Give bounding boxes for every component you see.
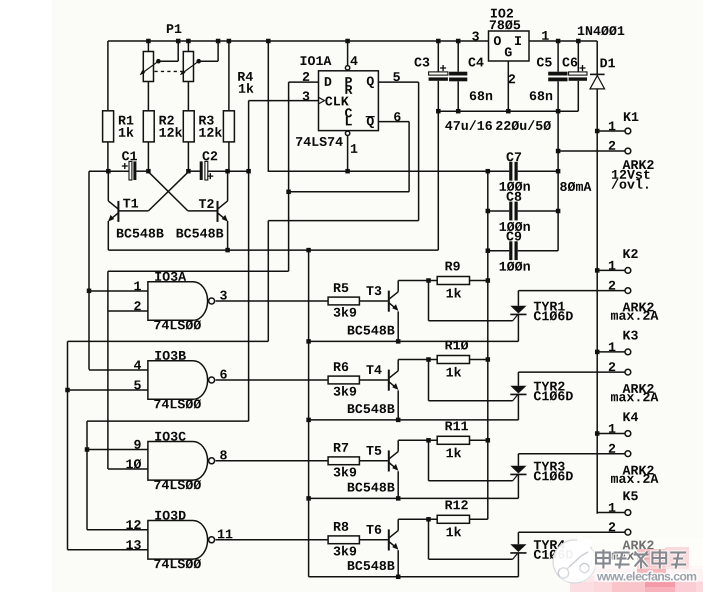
wire CLK net up bbox=[248, 101, 250, 172]
capacitor C9 bbox=[507, 232, 522, 241]
junction rail C5 bbox=[556, 39, 561, 44]
wire D feedback up bbox=[288, 82, 290, 192]
junction collector gate-drive bbox=[426, 517, 431, 522]
junction supply K3 pin1 bbox=[595, 350, 600, 355]
wire C1 to R2 bbox=[136, 170, 148, 172]
pin 4 preset bbox=[345, 39, 350, 44]
junction spine rail row2 bbox=[306, 418, 311, 423]
wire R3 bottom bbox=[187, 142, 189, 171]
wiper P1b bbox=[196, 59, 201, 64]
resistor R1Ø bbox=[437, 356, 469, 364]
junction C8 right bbox=[556, 209, 561, 214]
transistor T5 BC548B bbox=[366, 446, 381, 455]
resistor R11 bbox=[437, 436, 469, 444]
label C4 value2 bbox=[496, 120, 551, 130]
nand gate IO3B 74LS00 bbox=[148, 361, 208, 400]
junction emitter rail row3 bbox=[396, 496, 401, 501]
junction GND spine top bbox=[306, 248, 311, 253]
label T1 value bbox=[117, 229, 164, 238]
wire thyristor gate row1 bbox=[428, 281, 430, 321]
junction wiper P1b rail bbox=[216, 39, 221, 44]
junction R3 bottom bbox=[186, 169, 191, 174]
wire emitter rail row2 bbox=[309, 419, 519, 421]
wire emitter rail row3 bbox=[309, 497, 519, 499]
resistor R1 bbox=[103, 111, 114, 142]
connector K2 bbox=[623, 249, 637, 258]
junction C8 left bbox=[486, 209, 491, 214]
wire GND spine bbox=[308, 250, 310, 577]
junction emitter rail row2 bbox=[396, 418, 401, 423]
junction top rail P1b bbox=[186, 39, 191, 44]
pin 2 input wire bbox=[134, 301, 140, 310]
connector K5 bbox=[623, 491, 637, 500]
junction net-Q in5 bbox=[65, 388, 70, 393]
watermark elecfans logo bbox=[590, 566, 703, 581]
resistor R9 bbox=[437, 277, 469, 285]
transistor T1 bbox=[123, 199, 138, 208]
junction wiper P1a rail bbox=[176, 39, 181, 44]
pin 8 output wire bbox=[220, 450, 227, 459]
connector K4 bbox=[623, 412, 638, 421]
capacitor C5 bbox=[557, 41, 559, 72]
pin 3 output wire bbox=[220, 291, 227, 300]
junction net-B in9 bbox=[85, 447, 90, 452]
junction K1 pin1 bbox=[595, 129, 600, 134]
wire R12 to +5 column bbox=[470, 518, 488, 520]
wire R1 bottom bbox=[107, 142, 109, 172]
pin 9 input wire bbox=[134, 440, 140, 449]
label current 80mA bbox=[560, 182, 591, 191]
junction emitter rail row4 bbox=[396, 575, 401, 580]
nand gate IO3D 74LS00 bbox=[148, 521, 208, 560]
label T2 value bbox=[177, 229, 224, 238]
transistor T4 BC548B bbox=[366, 365, 381, 374]
pin 1 clear bbox=[345, 131, 349, 135]
nand gate IO3C 74LS00 bbox=[148, 442, 208, 481]
junction C7 left bbox=[486, 169, 491, 174]
junction R1 bottom bbox=[106, 169, 111, 174]
junction top rail R4 bbox=[227, 39, 232, 44]
potentiometer P1 section A bbox=[147, 41, 149, 52]
resistor R6 bbox=[328, 376, 359, 384]
coupling dashes P1 bbox=[155, 70, 183, 72]
op-amp U1 IO1A 74LS74 box bbox=[319, 71, 379, 131]
wire collector row3 bbox=[398, 439, 437, 441]
pin 11 output wire bbox=[218, 530, 233, 539]
pin 5 Q output bbox=[393, 72, 400, 81]
junction rail x268 bbox=[266, 39, 271, 44]
pin 4 input wire bbox=[134, 360, 141, 369]
wire Qbar net down bbox=[288, 192, 290, 271]
pin 12 input wire bbox=[126, 520, 140, 529]
label C3 value bbox=[445, 120, 492, 130]
junction net-C in1 bbox=[87, 289, 92, 294]
junction gnd C4 bbox=[456, 109, 461, 114]
capacitor C6 bbox=[577, 41, 579, 72]
wire thyristor gate row4 bbox=[428, 519, 430, 559]
wire R8 to base bbox=[359, 539, 388, 541]
wire emitter rail row1 bbox=[309, 340, 519, 342]
junction collector gate-drive bbox=[426, 438, 431, 443]
junction C7 right bbox=[556, 169, 561, 174]
wire R2 bottom bbox=[147, 142, 149, 171]
resistor R12 bbox=[437, 515, 469, 523]
pin 1Ø input wire bbox=[126, 459, 141, 468]
junction T2 emitter bbox=[225, 248, 230, 253]
junction emitter rail row1 bbox=[396, 339, 401, 344]
wire R3 to C2 bbox=[188, 170, 200, 172]
thyristor TYR1 C106D bbox=[534, 302, 565, 311]
wire R1Ø to +5 column bbox=[470, 359, 488, 361]
wire C1 net down bbox=[88, 171, 90, 369]
thyristor TYR3 C106D bbox=[534, 462, 565, 471]
wire T2 base cross to C1 net bbox=[148, 172, 188, 211]
wire Q net bbox=[418, 82, 420, 221]
regulator IO2 7805 bbox=[489, 31, 530, 61]
potentiometer P1 section B bbox=[187, 41, 189, 52]
wire thyristor gate row2 bbox=[428, 360, 430, 401]
node rail-R1 corner bbox=[107, 41, 109, 111]
resistor R7 bbox=[328, 457, 359, 465]
junction gnd C5 bbox=[556, 109, 561, 114]
pin 3 CLK input bbox=[303, 91, 310, 100]
junction +5 column row1 bbox=[486, 278, 491, 283]
junction top rail P1a bbox=[146, 39, 151, 44]
junction CLK net bbox=[246, 169, 251, 174]
junction +5 column row3 bbox=[486, 438, 491, 443]
wire R11 to +5 column bbox=[470, 439, 488, 441]
resistor R4 bbox=[228, 41, 230, 111]
junction gnd C3 bbox=[436, 109, 441, 114]
capacitor C8 bbox=[507, 192, 522, 201]
wire collector row1 bbox=[398, 280, 437, 282]
wire T1 base cross to C2 net bbox=[148, 172, 188, 211]
wire T1 collector net bbox=[89, 170, 129, 172]
junction K1 pin2 bbox=[556, 149, 561, 154]
pin 1 input wire bbox=[134, 281, 141, 290]
wire C2 to CLK net bbox=[208, 170, 249, 172]
pin 6 output wire bbox=[220, 370, 226, 379]
wiper P1a bbox=[156, 59, 161, 64]
wire CLK net down bbox=[248, 171, 250, 421]
junction collector gate-drive bbox=[426, 357, 431, 362]
resistor R8 bbox=[328, 536, 359, 544]
thyristor TYR4 C106D bbox=[534, 540, 565, 549]
wire gnd column C5 down bbox=[557, 111, 559, 251]
junction supply K4 pin1 bbox=[595, 431, 600, 436]
junction +5 column row2 bbox=[486, 357, 491, 362]
junction rail C3 bbox=[436, 39, 441, 44]
wire +5V top rail bbox=[108, 40, 489, 42]
junction pin1 rail bbox=[345, 169, 350, 174]
wire 7805 output side bbox=[529, 40, 597, 42]
junction supply K2 pin1 bbox=[595, 268, 600, 273]
wire +5 column bbox=[487, 171, 489, 519]
pin 13 input wire bbox=[126, 540, 140, 549]
wire GND rail oscillator bbox=[108, 249, 438, 251]
resistor R2 bbox=[143, 111, 154, 142]
pin 6 Qbar output bbox=[394, 112, 400, 121]
junction rail C4 bbox=[456, 39, 461, 44]
wire collector row2 bbox=[398, 359, 437, 361]
wire emitter rail row4 bbox=[309, 576, 519, 578]
wire thyristor gate row3 bbox=[428, 440, 430, 480]
wire R6 to base bbox=[359, 379, 388, 381]
wire R5 to base bbox=[359, 300, 388, 302]
nand gate IO3A 74LS00 bbox=[148, 282, 208, 321]
resistor R3 bbox=[183, 111, 194, 142]
capacitor C2 bbox=[203, 151, 218, 160]
wire R7 to base bbox=[359, 460, 388, 462]
junction Qbar-D node bbox=[286, 190, 291, 195]
wire gnd rail 111 bbox=[438, 110, 578, 112]
wire Qbar feedback bbox=[408, 122, 410, 192]
wire collector row4 bbox=[398, 518, 437, 520]
wire R9 to +5 column bbox=[470, 280, 488, 282]
junction spine rail row1 bbox=[306, 339, 311, 344]
junction collector gate-drive bbox=[426, 278, 431, 283]
transistor T3 BC548B bbox=[366, 286, 381, 295]
transistor T6 BC548B bbox=[366, 525, 381, 534]
wire x268 from rail bbox=[267, 41, 269, 172]
capacitor C1 bbox=[122, 151, 137, 160]
thyristor TYR2 C106D bbox=[534, 382, 565, 391]
connector K1 bbox=[624, 112, 639, 121]
capacitor C4 bbox=[457, 41, 459, 72]
resistor R5 bbox=[328, 297, 359, 305]
pin 5 input wire bbox=[134, 380, 141, 389]
junction gnd 7805 bbox=[506, 109, 511, 114]
junction R2 bottom bbox=[146, 169, 151, 174]
junction R4 bottom T2 collector bbox=[225, 169, 230, 174]
capacitor C3 bbox=[437, 41, 439, 72]
diode D1 1N4001 bbox=[578, 26, 624, 35]
junction rail C6 bbox=[576, 39, 581, 44]
connector K3 bbox=[623, 331, 637, 340]
capacitor C7 bbox=[507, 152, 522, 161]
transistor T2 bbox=[199, 199, 214, 208]
junction spine rail row3 bbox=[306, 496, 311, 501]
pin 2 D input bbox=[303, 72, 309, 81]
junction C9 left bbox=[486, 248, 491, 253]
potentiometer P1 label bbox=[167, 24, 182, 33]
wire 7805 gnd pin bbox=[507, 61, 509, 111]
